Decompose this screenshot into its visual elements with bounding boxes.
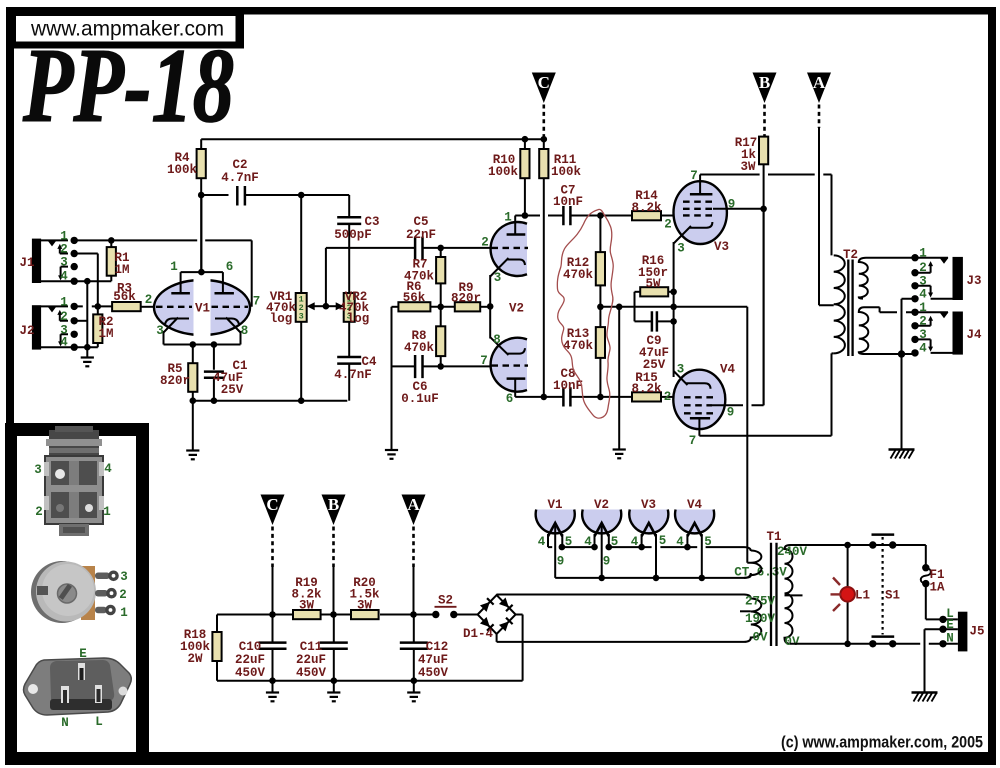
svg-text:N: N <box>946 632 954 646</box>
junction dot V3 screen <box>760 206 767 213</box>
V3 plate <box>690 175 713 195</box>
label R6 56k <box>403 280 426 305</box>
svg-text:8: 8 <box>493 333 501 347</box>
wire B column to HT bus <box>333 567 335 615</box>
label R4 100k <box>167 151 198 177</box>
VR1 wiper arrow <box>307 302 326 310</box>
junction dot V2 cathodes to R9 <box>487 303 494 310</box>
svg-text:J3: J3 <box>966 274 981 288</box>
svg-text:22uF: 22uF <box>235 653 265 667</box>
J3 pin numbers 1 2 3 4 <box>919 247 927 302</box>
J5 pin dots L E N <box>939 616 946 648</box>
label C8 10nF <box>553 367 583 393</box>
svg-text:J2: J2 <box>19 324 34 338</box>
V4 grid rows <box>684 397 714 413</box>
heater V3 <box>629 510 668 578</box>
svg-text:3: 3 <box>677 363 685 377</box>
ground phase inverter <box>613 450 626 459</box>
wire 0V line to switch <box>790 643 943 645</box>
svg-text:0V: 0V <box>784 635 800 649</box>
photo pot pin labels 3 2 1 <box>119 570 128 620</box>
heater V1 <box>536 510 602 578</box>
resistor R12 <box>596 216 605 307</box>
ground speaker return <box>889 450 915 459</box>
svg-text:2: 2 <box>664 390 672 404</box>
svg-text:190V: 190V <box>745 612 776 626</box>
J4 pin dots <box>911 309 918 357</box>
wire speaker ground drop <box>901 354 903 449</box>
label F1 1A <box>929 568 945 595</box>
wire VR2 bottom to C4 <box>348 322 350 357</box>
svg-text:T2: T2 <box>843 248 858 262</box>
wire V3 plate to T2 primary top <box>700 175 831 256</box>
capacitor C4 <box>337 357 361 401</box>
svg-text:L: L <box>95 715 103 729</box>
ground mains earth <box>912 693 938 702</box>
resistor R20 <box>351 610 379 619</box>
pentode V4 envelope <box>673 370 725 429</box>
V2 lower cathode <box>490 306 525 355</box>
capacitor C12 <box>400 615 428 681</box>
wire V3 pin9 to screen column <box>713 208 764 210</box>
wire C7 node to R14 <box>600 215 632 217</box>
marker triangle A top <box>807 73 831 129</box>
svg-text:820r: 820r <box>160 374 190 388</box>
label R9 820r <box>451 281 481 306</box>
marker triangle A bottom <box>402 495 426 568</box>
capacitor C11 <box>320 615 348 681</box>
svg-text:1: 1 <box>919 247 927 261</box>
svg-text:9: 9 <box>727 406 735 420</box>
resistor R19 <box>293 610 321 619</box>
svg-text:T1: T1 <box>766 530 781 544</box>
mains inlet J5 <box>943 612 967 652</box>
wire A column to T2 centre tap <box>819 128 834 305</box>
photo IEC inlet <box>24 658 132 715</box>
label R20 1.5k 3W <box>349 576 380 613</box>
label R3 56k <box>113 282 136 305</box>
resistor R7 <box>436 248 445 284</box>
svg-text:3: 3 <box>677 242 685 256</box>
jack J1 <box>32 239 74 283</box>
V3 cathode <box>674 222 713 377</box>
wire earth drop <box>925 629 944 691</box>
capacitor C8 <box>563 387 632 406</box>
V2 lower plate <box>507 379 526 397</box>
svg-text:7: 7 <box>253 295 261 309</box>
wire T2 secondary top to J3 pin1 <box>866 257 915 259</box>
junction dots cathode rail <box>190 341 218 348</box>
junction dot R12 bottom <box>597 304 604 311</box>
junction dots cathode network <box>616 289 677 325</box>
photo potentiometer <box>31 561 117 623</box>
wire J2 pin1 to R3 (gap at ground drop) <box>74 305 112 307</box>
junction dot V1 plates <box>198 269 205 276</box>
T1 HT winding <box>744 595 761 642</box>
wire 0V secondary to bridge <box>497 634 744 642</box>
wire heater CT to T1 <box>602 573 751 578</box>
junction dots bottom rail <box>190 397 305 404</box>
wire VR1 column <box>300 195 302 293</box>
wire T2 secondary bottom to J4 pin4 <box>865 353 915 355</box>
capacitor C1 <box>204 372 224 401</box>
ground C12 <box>407 693 420 702</box>
svg-text:100k: 100k <box>167 163 198 177</box>
svg-text:56k: 56k <box>113 290 136 304</box>
wire cathode node to heater CT column <box>674 307 748 563</box>
junction dot wiper node <box>323 303 330 310</box>
label R8 470k <box>404 329 435 355</box>
wire cathode network verticals <box>600 292 673 322</box>
wire ground drop R12 node <box>618 307 620 450</box>
wire cathode bottom rail to C4 <box>193 392 347 401</box>
svg-text:2: 2 <box>481 236 489 250</box>
svg-text:5: 5 <box>659 534 667 548</box>
svg-text:V2: V2 <box>509 302 524 316</box>
lamp L1 <box>831 545 855 644</box>
V2 upper cathode <box>490 258 525 306</box>
junction dot R11 bottom <box>541 394 548 401</box>
label C2 4.7nF <box>221 158 259 185</box>
jack J4 <box>915 312 963 355</box>
wire top bus R4 to C node <box>201 139 544 149</box>
junction dot R2 top node <box>95 303 102 310</box>
svg-text:A: A <box>813 73 826 92</box>
svg-text:56k: 56k <box>403 291 426 305</box>
label C9 47uF 25V <box>639 334 669 372</box>
svg-text:J1: J1 <box>19 256 34 270</box>
wire J1 pin4 to R1 bottom <box>74 276 111 282</box>
svg-text:0V: 0V <box>752 631 768 645</box>
svg-text:(c) www.ampmaker.com, 2005: (c) www.ampmaker.com, 2005 <box>781 734 983 752</box>
junction dot C node <box>541 136 548 143</box>
svg-text:C12: C12 <box>426 640 449 654</box>
label R11 100k <box>551 153 582 179</box>
V2 lower grid dashes <box>492 364 529 366</box>
label R15 8.2k <box>631 371 662 396</box>
V1 heater pins 4 5 9 <box>538 535 573 569</box>
ground below C6 leg <box>385 450 398 459</box>
wire V2 pin6 line to C8 <box>515 396 563 398</box>
label VR2 470k log <box>339 290 370 326</box>
photo panel frame <box>5 423 149 765</box>
T2 secondary winding upper <box>859 258 868 299</box>
svg-text:V2: V2 <box>594 498 609 512</box>
svg-text:3: 3 <box>494 271 502 285</box>
resistor R9 <box>455 302 490 311</box>
wire R4 bottom node <box>201 178 228 272</box>
svg-text:4: 4 <box>919 342 927 356</box>
junction dot <box>84 344 91 351</box>
marker triangle C bottom <box>261 495 285 568</box>
VR2 wiper arrow <box>326 302 344 310</box>
wire ground stubs <box>273 681 414 692</box>
svg-text:47uF: 47uF <box>418 653 448 667</box>
svg-text:0.1uF: 0.1uF <box>401 392 439 406</box>
svg-text:450V: 450V <box>418 666 449 680</box>
svg-text:1: 1 <box>60 296 68 310</box>
resistor R3 <box>112 302 141 311</box>
svg-text:S1: S1 <box>885 589 900 603</box>
label R5 820r <box>160 362 190 388</box>
wire V4 pin9 to screen column <box>712 209 764 405</box>
wire C column to HT bus <box>272 567 274 615</box>
svg-text:1: 1 <box>919 301 927 315</box>
junction dot R12 top <box>597 212 604 219</box>
potentiometer VR1 <box>296 293 307 322</box>
svg-text:C3: C3 <box>364 215 379 229</box>
junction dots heater CT line <box>598 575 705 582</box>
wire J3 pin4 to ground column <box>902 299 916 354</box>
svg-text:10nF: 10nF <box>553 379 583 393</box>
svg-text:4.7nF: 4.7nF <box>221 171 259 185</box>
junction dots lamp <box>844 542 851 647</box>
capacitor C10 <box>259 615 287 681</box>
pentode V3 envelope <box>674 181 727 244</box>
svg-text:1M: 1M <box>114 263 129 277</box>
V1 pin numbers 1 6 2 7 3 8 <box>156 260 260 338</box>
svg-text:5W: 5W <box>645 277 661 291</box>
svg-text:1: 1 <box>120 606 128 620</box>
svg-text:3: 3 <box>919 328 927 342</box>
wire ground drop J1 pin4 to J2 pin4 <box>86 281 88 356</box>
svg-text:E: E <box>79 647 87 661</box>
svg-text:E: E <box>946 618 954 632</box>
svg-text:C2: C2 <box>232 158 247 172</box>
fuse F1 <box>921 564 943 619</box>
svg-text:2: 2 <box>35 505 43 519</box>
svg-text:1: 1 <box>170 260 178 274</box>
svg-text:3: 3 <box>120 570 128 584</box>
svg-text:log: log <box>270 312 293 326</box>
resistor R17 <box>759 137 768 406</box>
label C3 500pF <box>334 215 379 242</box>
svg-text:D1-4: D1-4 <box>463 627 494 641</box>
svg-text:V3: V3 <box>641 498 656 512</box>
bridge rectifier D1-4 <box>478 595 516 634</box>
label R18 100k 2W <box>180 628 211 666</box>
svg-text:22nF: 22nF <box>406 228 436 242</box>
svg-text:3: 3 <box>156 324 164 338</box>
wire R3 to V1 pin2 <box>141 306 155 308</box>
svg-text:100k: 100k <box>488 165 519 179</box>
label R13 470k <box>563 327 594 353</box>
svg-text:C4: C4 <box>361 355 377 369</box>
svg-text:1: 1 <box>504 211 512 225</box>
svg-text:8.2k: 8.2k <box>631 382 662 396</box>
V1 cathodes <box>164 318 241 345</box>
label C7 10nF <box>553 184 583 210</box>
svg-text:V4: V4 <box>720 363 736 377</box>
junction dot speaker ground <box>898 350 905 357</box>
wire T2 secondary tap to J4 pin1 <box>864 307 915 312</box>
resistor R6 <box>392 302 455 311</box>
junction dots 0V rail <box>269 677 417 684</box>
svg-text:8: 8 <box>241 324 249 338</box>
junction dot R7 top <box>437 245 444 252</box>
wire bridge positive to 0V rail <box>516 615 523 681</box>
junction dot R4 bottom <box>198 192 205 199</box>
V4 pin numbers 3 2 9 7 <box>664 363 735 449</box>
resistor R11 <box>539 139 548 397</box>
svg-text:820r: 820r <box>451 292 481 306</box>
svg-text:V3: V3 <box>714 240 729 254</box>
svg-text:C5: C5 <box>413 215 428 229</box>
label R10 100k <box>488 153 519 179</box>
junction dots R10 <box>522 136 529 219</box>
wire VR1 bottom <box>300 322 302 401</box>
svg-text:100k: 100k <box>551 165 582 179</box>
svg-text:3: 3 <box>60 256 68 270</box>
photo jack socket <box>44 426 104 536</box>
wire R7 bottom to junction <box>440 283 442 306</box>
svg-text:J4: J4 <box>966 328 982 342</box>
wire R1 top to J1 pin1 <box>110 240 112 247</box>
label C4 4.7nF <box>334 355 377 382</box>
heater V4 <box>675 510 714 578</box>
svg-text:470k: 470k <box>563 268 594 282</box>
svg-text:22uF: 22uF <box>296 653 326 667</box>
svg-text:25V: 25V <box>221 383 244 397</box>
capacitor C7 <box>563 206 600 225</box>
svg-text:240V: 240V <box>777 545 808 559</box>
V2 upper plate <box>507 216 526 235</box>
svg-text:2: 2 <box>60 310 68 324</box>
T1 190V tap stub <box>740 610 751 612</box>
label R17 1k 3W <box>735 136 758 174</box>
svg-text:2W: 2W <box>187 652 203 666</box>
T1 6.3V winding <box>744 551 761 578</box>
svg-text:450V: 450V <box>235 666 266 680</box>
label S2 <box>435 594 457 608</box>
svg-text:470k: 470k <box>404 341 435 355</box>
wire C3 column <box>348 195 350 217</box>
label C5 22nF <box>406 215 436 242</box>
svg-text:V4: V4 <box>687 498 703 512</box>
wire J1 pin2 down to R2 <box>74 254 98 315</box>
capacitor C5 <box>415 237 490 260</box>
wire HT bus <box>217 614 433 616</box>
J2 pin numbers 1 2 3 4 <box>60 296 68 350</box>
V1 plate structure <box>171 195 234 293</box>
svg-text:2: 2 <box>119 588 127 602</box>
svg-text:4: 4 <box>60 270 68 284</box>
label R19 8.2k 3W <box>291 576 322 613</box>
J4 pin numbers 1 2 3 4 <box>919 301 927 356</box>
svg-text:V1: V1 <box>195 302 210 316</box>
resistor R14 <box>632 211 676 220</box>
svg-text:2: 2 <box>919 261 927 275</box>
svg-text:25V: 25V <box>643 358 666 372</box>
svg-text:2: 2 <box>60 243 68 257</box>
svg-text:C: C <box>266 495 278 514</box>
resistor R2 <box>93 314 102 343</box>
V4 plate <box>690 418 710 436</box>
ground C10 <box>266 693 279 702</box>
junction dot R8 bottom <box>437 363 444 370</box>
label R16 150r 5W <box>638 254 668 291</box>
junction dot <box>84 278 91 285</box>
svg-text:3W: 3W <box>740 160 756 174</box>
svg-text:4: 4 <box>104 462 112 476</box>
label C12 47uF 450V <box>418 640 449 680</box>
svg-text:7: 7 <box>689 434 697 448</box>
junction dot R1 top <box>108 237 115 244</box>
triode V1 (dual) envelope <box>154 280 250 335</box>
label C11 22uF 450V <box>296 640 327 680</box>
V4 cathode <box>674 371 711 389</box>
svg-text:6: 6 <box>226 260 234 274</box>
V2 heater pins 4 5 9 <box>584 535 618 569</box>
wire heater top 6.3V line <box>562 547 751 551</box>
svg-text:7: 7 <box>480 354 488 368</box>
svg-text:A: A <box>407 495 420 514</box>
T1 core <box>771 543 777 646</box>
resistor R5 <box>188 363 197 392</box>
svg-text:6: 6 <box>506 392 514 406</box>
J1 pin numbers 1 2 3 4 <box>60 230 68 284</box>
capacitor C9 <box>635 311 674 331</box>
triode V2 lower half <box>491 338 527 392</box>
svg-text:V1: V1 <box>547 498 562 512</box>
label R1 1M <box>114 251 129 277</box>
label R2 1M <box>98 315 113 341</box>
V2 pin numbers 1 2 3 <box>481 211 512 286</box>
label C1 47uF 25V <box>213 359 248 397</box>
wire J1 pin1 to V1 pin7 (gap at R4 column) <box>74 240 252 306</box>
red annotation loop around R12 R13 <box>557 209 613 418</box>
svg-text:C10: C10 <box>239 640 262 654</box>
V2 upper grid dashes <box>492 247 529 249</box>
svg-text:3W: 3W <box>357 599 373 613</box>
T2 core <box>848 260 852 357</box>
svg-text:500pF: 500pF <box>334 228 372 242</box>
label VR1 470k log <box>266 290 297 326</box>
resistor R8 <box>436 307 445 367</box>
wire R2 bottom to J2 pin4 <box>74 343 98 347</box>
junction dots heater top <box>559 544 691 551</box>
svg-text:1M: 1M <box>98 327 113 341</box>
svg-text:4: 4 <box>919 288 927 302</box>
label R7 470k <box>404 258 435 284</box>
svg-text:C: C <box>538 73 550 92</box>
svg-text:1: 1 <box>103 505 111 519</box>
switch S1 <box>869 535 896 648</box>
junction dot phase inverter node <box>437 304 444 311</box>
capacitor C2 <box>237 186 349 206</box>
heater V2 <box>582 510 621 578</box>
wire V2 pin1 plate line to C7 <box>515 215 563 217</box>
jack J2 <box>32 305 74 349</box>
marker triangle B bottom <box>322 495 346 568</box>
svg-text:8.2k: 8.2k <box>631 201 662 215</box>
photo IEC pin labels E N L <box>61 647 103 730</box>
label C10 22uF 450V <box>235 640 266 680</box>
T1 220V tap stub <box>785 594 803 596</box>
wire HT 0V rail <box>217 680 523 682</box>
svg-text:9: 9 <box>603 555 611 569</box>
svg-text:2: 2 <box>145 293 153 307</box>
label R12 470k <box>563 256 594 282</box>
junction dot R13 bottom <box>597 394 604 401</box>
svg-text:PP-18: PP-18 <box>22 27 234 144</box>
jack J3 <box>915 257 963 300</box>
svg-text:B: B <box>759 73 770 92</box>
svg-text:1: 1 <box>60 230 68 244</box>
T2 primary winding <box>834 255 845 353</box>
svg-text:3: 3 <box>299 311 304 321</box>
resistor R15 <box>632 392 676 401</box>
